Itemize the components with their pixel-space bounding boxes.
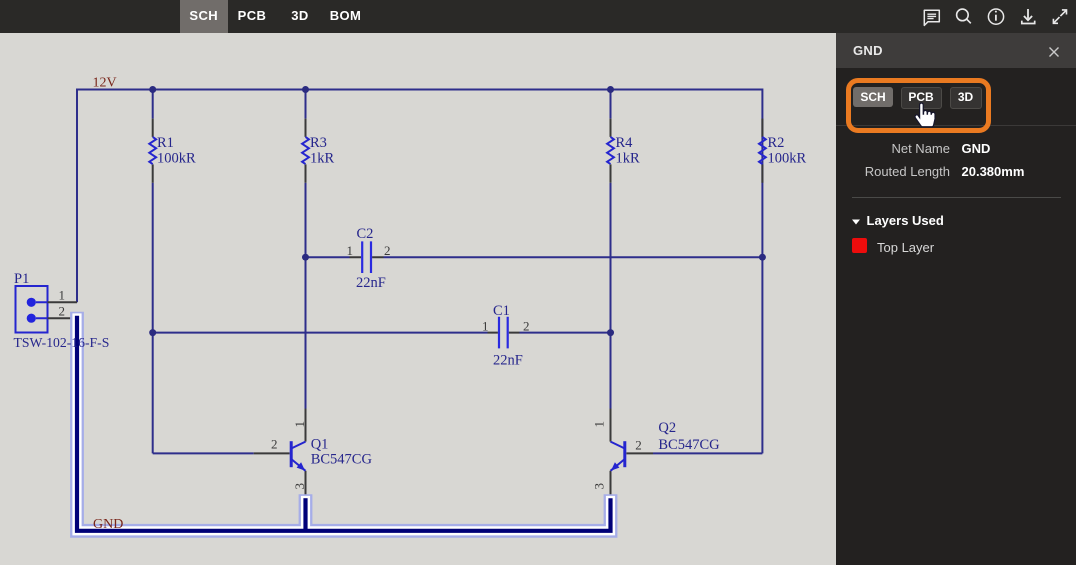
pin numbers Q2 <box>592 421 642 490</box>
transistor Q2 <box>611 409 654 498</box>
pin numbers C2 <box>347 243 391 258</box>
svg-text:1kR: 1kR <box>310 150 335 166</box>
svg-text:BC547CG: BC547CG <box>311 451 373 467</box>
svg-text:Q2: Q2 <box>658 420 676 436</box>
svg-text:22nF: 22nF <box>493 353 523 369</box>
wire C2 row right <box>384 256 763 258</box>
wire GND stub from Q1 emitter (halo) <box>299 494 313 531</box>
node C1/R1 <box>149 329 156 336</box>
svg-text:1kR: 1kR <box>616 150 641 166</box>
label Q1 <box>311 436 373 467</box>
label R4 <box>616 135 641 166</box>
resistor R3 <box>302 119 309 183</box>
connector P1 <box>16 286 79 333</box>
wire left column to P1 pin 1 <box>76 89 78 303</box>
wire GND Q1 stub (highlighted core) <box>303 498 307 531</box>
schematic canvas <box>0 0 836 565</box>
wire R2 column <box>761 89 763 454</box>
svg-text:2: 2 <box>635 438 642 453</box>
wire R3 bottom to Q1 collector <box>305 183 307 409</box>
wire C1 row right <box>520 332 611 334</box>
pin numbers Q1 <box>271 421 307 490</box>
wire C1 row left <box>153 332 488 334</box>
wire Q2 base row <box>653 452 762 454</box>
wire GND main run (white inner halo) <box>77 313 611 530</box>
resistor R2 <box>759 119 766 183</box>
label C2 <box>356 226 386 291</box>
wire R4 top stub <box>610 90 612 119</box>
svg-text:2: 2 <box>523 318 530 333</box>
svg-text:GND: GND <box>93 517 123 532</box>
info icon <box>988 9 1003 24</box>
layer swatch Top Layer <box>852 238 867 253</box>
label R3 <box>310 135 335 166</box>
wire C2 row left <box>306 256 350 258</box>
pin numbers P1 <box>59 288 66 319</box>
wire R1 top stub <box>152 90 154 119</box>
svg-text:R2: R2 <box>768 135 785 151</box>
orange callout box <box>846 78 991 134</box>
node 12V/R1 <box>149 86 156 93</box>
svg-text:1: 1 <box>59 288 66 303</box>
node 12V/R3 <box>302 86 309 93</box>
label Q2 <box>658 420 720 453</box>
wire GND Q1 stub (white inner halo) <box>301 496 310 531</box>
label P1 <box>14 271 110 350</box>
label R1 <box>157 135 196 166</box>
net name row <box>836 141 950 156</box>
wire R1 bottom to Q1 base row <box>152 183 154 454</box>
wire GND net highlighted run: P1 pin2 down, along bottom, up to Q2 emitter (halo) <box>77 312 611 531</box>
view buttons <box>853 87 893 107</box>
resistor R4 <box>607 119 614 183</box>
right properties panel <box>836 33 1076 565</box>
search icon <box>957 9 971 23</box>
label R2 <box>768 135 807 166</box>
svg-text:C1: C1 <box>493 303 510 319</box>
svg-text:2: 2 <box>271 436 278 451</box>
wire R4 bottom to Q2 collector <box>610 183 612 409</box>
svg-text:100kR: 100kR <box>768 150 807 166</box>
svg-text:1: 1 <box>347 243 354 258</box>
svg-text:12V: 12V <box>93 76 117 91</box>
capacitor C1 <box>488 317 520 349</box>
svg-text:Q1: Q1 <box>311 436 329 452</box>
svg-text:1: 1 <box>592 421 607 428</box>
svg-text:R3: R3 <box>310 135 327 151</box>
svg-text:3: 3 <box>592 483 607 490</box>
svg-text:TSW-102-16-F-S: TSW-102-16-F-S <box>14 335 110 350</box>
node C1/R4 <box>607 329 614 336</box>
transistor Q1 <box>254 409 306 498</box>
pin numbers C1 <box>482 318 530 333</box>
svg-text:BC547CG: BC547CG <box>658 437 720 453</box>
wire R3 top stub <box>305 90 307 119</box>
svg-text:R4: R4 <box>616 135 634 151</box>
svg-text:1: 1 <box>482 318 489 333</box>
expand icon <box>1053 10 1066 23</box>
wire GND main run (highlighted core) <box>77 316 611 531</box>
mouse cursor <box>915 103 935 129</box>
comment icon <box>924 10 939 25</box>
layers used header <box>851 218 861 226</box>
svg-text:22nF: 22nF <box>356 275 386 291</box>
node 12V/R4 <box>607 86 614 93</box>
wire Q1 base row <box>153 452 254 454</box>
node C2/R3 <box>302 254 309 261</box>
svg-text:C2: C2 <box>357 226 374 242</box>
resistor R1 <box>149 119 156 183</box>
svg-text:P1: P1 <box>14 271 29 287</box>
download icon <box>1022 9 1035 24</box>
capacitor C2 <box>350 241 384 273</box>
svg-text:2: 2 <box>384 243 391 258</box>
svg-text:3: 3 <box>292 483 307 490</box>
top application bar <box>0 0 1076 33</box>
label C1 <box>493 303 523 369</box>
svg-text:2: 2 <box>59 304 66 319</box>
node C2/R2 <box>759 254 766 261</box>
svg-text:R1: R1 <box>157 135 174 151</box>
svg-text:100kR: 100kR <box>157 150 196 166</box>
wire 12V top rail <box>77 89 762 91</box>
svg-text:1: 1 <box>292 421 307 428</box>
separator <box>852 197 1061 198</box>
